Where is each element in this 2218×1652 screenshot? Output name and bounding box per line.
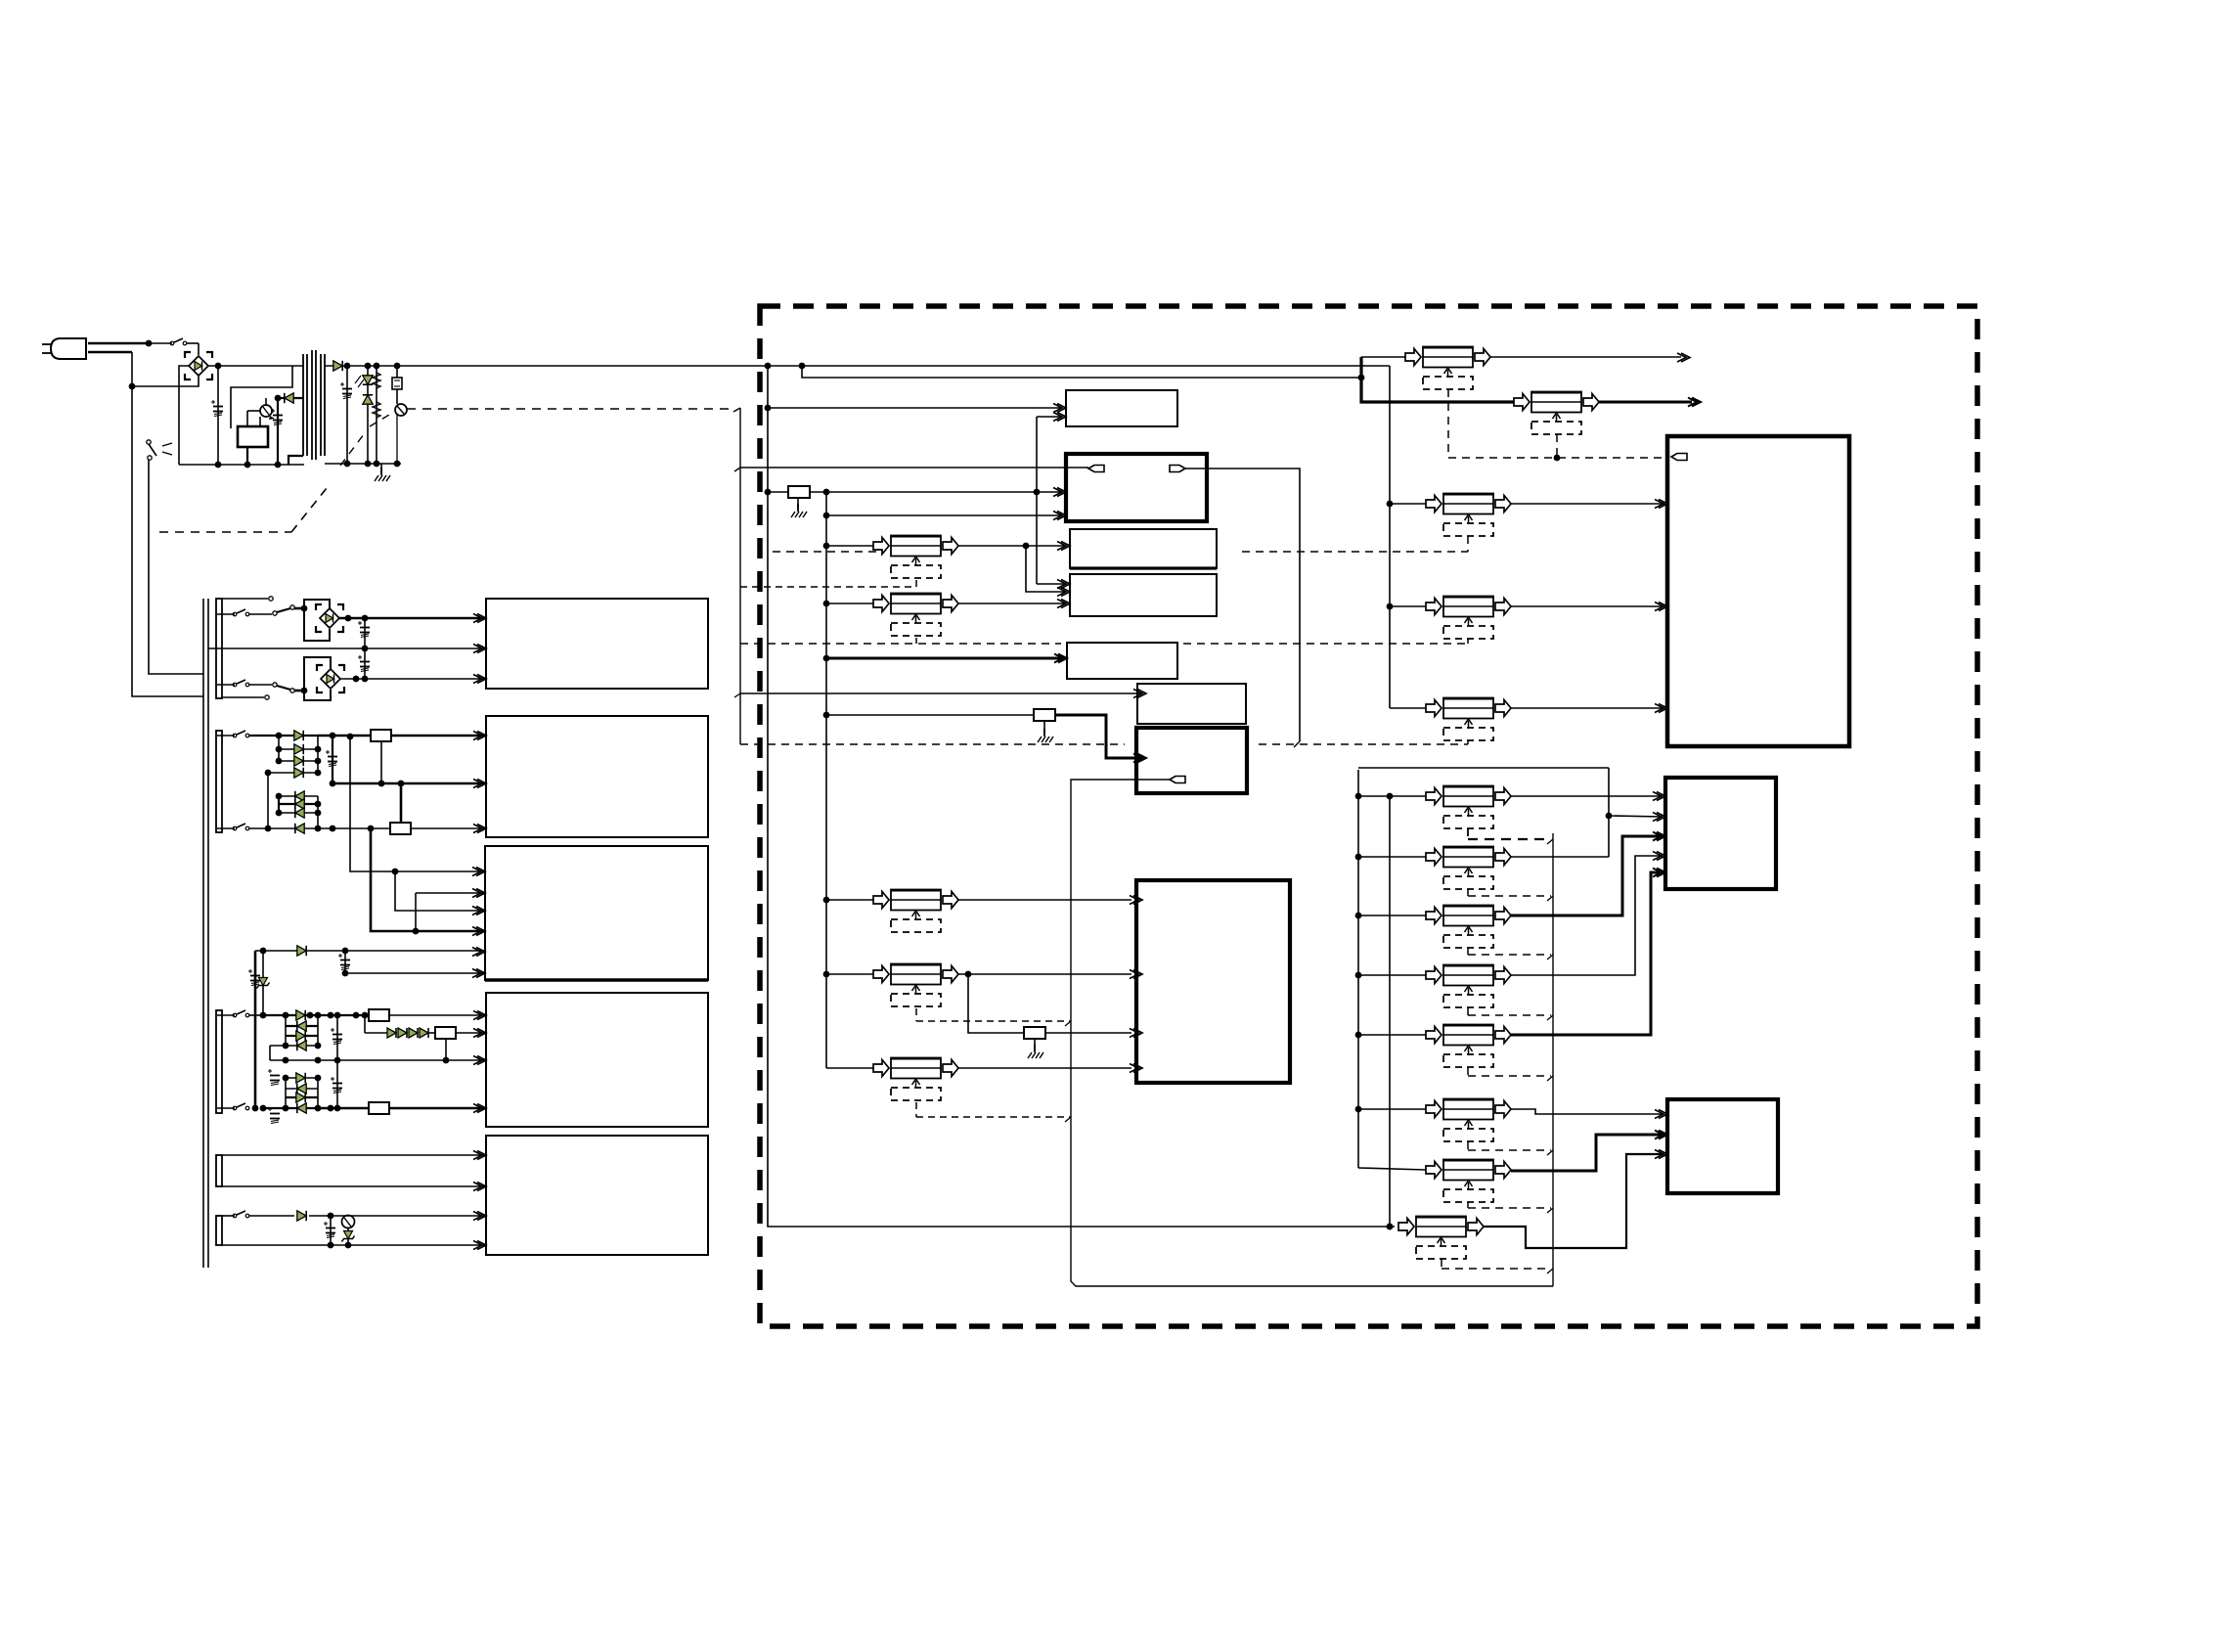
node s2b	[330, 733, 336, 739]
wire cross-l	[740, 467, 1088, 469]
terminal t0	[221, 597, 273, 601]
block B4	[486, 993, 708, 1127]
resistor R7	[318, 1102, 486, 1114]
dashed c1-drop	[1447, 389, 1449, 458]
pin B3	[472, 927, 485, 936]
AC plug P1	[42, 338, 86, 359]
node x1389	[1355, 1106, 1362, 1113]
diode D20	[420, 1028, 428, 1038]
pin BoxK-2	[1130, 970, 1142, 979]
node sec1	[344, 363, 351, 370]
diode D25	[297, 1211, 306, 1221]
pin BoxB-4	[1653, 852, 1665, 861]
wire bus-X1420-low	[1387, 793, 1394, 1230]
node br2o	[345, 615, 352, 622]
wire left-drop-A	[132, 386, 203, 696]
dashed c2-drop	[1556, 434, 1558, 458]
node mains-B	[129, 383, 136, 390]
connector CN3	[873, 536, 958, 579]
pin BoxE-1	[1053, 404, 1066, 413]
node x845	[823, 543, 830, 550]
node rail-b	[275, 462, 282, 469]
wire r1-out	[1511, 795, 1663, 797]
wire r4-up	[400, 783, 403, 824]
wire b1-in2	[208, 647, 486, 649]
wire boxE-in2	[1037, 416, 1061, 418]
node br3o	[353, 676, 360, 683]
wire r7-in	[1358, 1168, 1426, 1170]
node s2a	[276, 733, 283, 739]
zener ZD3	[342, 1228, 355, 1245]
diode D2	[278, 393, 304, 403]
resistor R2	[373, 402, 380, 418]
pin BoxE-2	[1053, 413, 1066, 422]
node sec5	[344, 461, 351, 468]
node x785-b	[765, 489, 772, 496]
flag BoxD-l	[1088, 466, 1104, 472]
node x1389	[1355, 913, 1362, 919]
connector CN11	[1426, 786, 1511, 829]
node x845	[823, 655, 830, 662]
diode D17	[387, 1028, 396, 1038]
node s7a	[260, 1012, 267, 1019]
winding W5	[216, 1216, 222, 1245]
capacitor C11	[268, 1107, 280, 1124]
wire c9-out	[1484, 1154, 1663, 1248]
node c4b	[362, 646, 369, 652]
bus X845	[825, 492, 827, 1068]
diode D15	[286, 1031, 318, 1041]
switch S8	[217, 1103, 249, 1110]
wire return-to-BR1	[132, 376, 199, 386]
diode D16	[270, 1041, 321, 1050]
wire X1060	[1036, 417, 1038, 584]
node x1389	[1355, 793, 1362, 800]
node mains-A	[146, 340, 153, 347]
pin B3	[472, 868, 485, 876]
ground GND2	[791, 498, 807, 517]
resistor R3	[318, 730, 486, 741]
pin BoxC-1	[1655, 1110, 1667, 1119]
wire r5-out	[1511, 872, 1663, 1035]
node s8a	[328, 1105, 334, 1112]
block B5	[486, 1136, 708, 1255]
box BoxA	[1667, 436, 1849, 746]
wire r4-in	[1358, 974, 1426, 976]
diode D19	[409, 1028, 418, 1038]
resistor R1	[373, 366, 380, 464]
ground GND1	[375, 464, 390, 481]
wire r6-down	[443, 1039, 450, 1063]
node s4m2	[353, 1012, 360, 1019]
node s4m	[328, 1012, 334, 1019]
pin B1	[473, 614, 486, 623]
capacitor C8	[248, 969, 260, 986]
node br3o2	[362, 676, 369, 683]
flag BoxJ-ctl	[1170, 777, 1185, 783]
node D2-a	[275, 395, 282, 402]
tick coll-t4	[1547, 1015, 1553, 1020]
wire boxH-in	[826, 657, 1061, 660]
pin BoxC-2	[1655, 1131, 1667, 1139]
wire b5-in2	[222, 1185, 486, 1187]
capacitor C2	[271, 398, 283, 465]
bridge rectifier BR2	[316, 604, 343, 632]
block B2	[486, 716, 708, 837]
box BoxK	[1136, 880, 1290, 1083]
wire boxI-in	[734, 693, 1140, 697]
wire T1-sec-top	[325, 365, 352, 367]
wire s4-br3	[277, 686, 307, 693]
wire boxD-in2	[826, 514, 1061, 516]
diode D23	[286, 1093, 318, 1102]
switch S3	[217, 609, 272, 616]
wire d-col4	[252, 1078, 322, 1111]
capacitor C13	[324, 1216, 335, 1245]
wire b3-in6	[342, 970, 486, 977]
wire b2-mid	[330, 781, 486, 787]
node c9join	[1387, 1224, 1394, 1230]
dashed r3	[1468, 948, 1551, 955]
tick coll-t5	[1547, 1076, 1553, 1081]
pin BoxB-3	[1653, 832, 1665, 841]
diode D26	[297, 946, 306, 956]
dashed c5	[740, 740, 1468, 744]
wire left-drop-B	[149, 460, 203, 674]
connector CN6	[873, 964, 958, 1007]
bridge rectifier BR1	[185, 352, 212, 380]
resistor R8	[768, 486, 1061, 498]
terminal t1	[273, 611, 277, 615]
wire d-col2-l	[278, 796, 280, 813]
pin BoxD-2	[1053, 512, 1066, 520]
bus line L2	[207, 599, 209, 1268]
wire r3-in	[1358, 915, 1426, 916]
tick coll-t6	[1547, 1150, 1553, 1155]
pin BoxF-1	[1057, 542, 1070, 551]
tick coll-t2	[1547, 896, 1553, 901]
capacitor C9	[331, 1012, 342, 1064]
pin B4	[473, 1011, 486, 1020]
pin BoxB-1	[1653, 792, 1665, 801]
dashed c8	[916, 1102, 1071, 1122]
pin BoxC-3	[1655, 1150, 1667, 1159]
node vsplit	[1358, 375, 1365, 381]
wire d-col1-r	[315, 736, 322, 776]
capacitor C4	[358, 618, 370, 648]
connector CN16	[1426, 1099, 1511, 1142]
pin BoxB-2	[1653, 813, 1665, 822]
node rail-a	[244, 462, 251, 469]
wire bus-X785	[768, 366, 1395, 1227]
connector CN1	[1405, 347, 1490, 390]
box BoxH	[1067, 643, 1177, 679]
wire sec3-v1	[347, 734, 486, 875]
transistor Q2 opto	[395, 404, 407, 464]
pin BoxA-3	[1655, 704, 1667, 713]
optocoupler LED D4	[355, 366, 373, 464]
winding W4	[216, 1155, 222, 1186]
pin B2	[473, 732, 486, 740]
block B3	[485, 846, 708, 980]
wire c1-in	[1361, 357, 1405, 378]
capacitor C12	[331, 1060, 342, 1111]
wire boxE-in1	[768, 407, 1061, 409]
connector CN15	[1426, 1025, 1511, 1068]
tick cross-b	[1294, 741, 1300, 747]
node s7b	[283, 1012, 289, 1019]
dashed cF1	[740, 580, 916, 587]
node x845	[823, 513, 830, 519]
node sec8	[394, 461, 401, 468]
node r8a	[823, 489, 830, 496]
pin BoxG-2	[1057, 588, 1070, 597]
pin BoxG-1	[1057, 580, 1070, 589]
wire T1-prim-bot	[288, 456, 303, 465]
connector CN14	[1426, 965, 1511, 1008]
wire Q1-drain	[265, 398, 267, 405]
pin BoxK-1	[1130, 896, 1142, 905]
wire cF1-out	[958, 543, 1065, 550]
wire r6-out	[1511, 1109, 1663, 1114]
node br2o2	[362, 615, 369, 622]
pin B1	[473, 675, 486, 684]
resistor R6	[429, 1027, 486, 1039]
pin B2	[473, 825, 486, 833]
wire c3-out	[1511, 503, 1664, 505]
terminal t0b	[221, 695, 269, 699]
wire r1-in	[1358, 795, 1426, 797]
wire r2-branch	[1609, 816, 1663, 817]
resistor R10	[1024, 1027, 1045, 1039]
box BoxE	[1066, 390, 1177, 426]
wire c8-out	[958, 1067, 1131, 1069]
bridge rectifier BR3	[317, 665, 344, 692]
pin B4	[473, 1056, 486, 1065]
diode D22	[286, 1084, 318, 1094]
wire mains-bottom	[88, 351, 132, 354]
wire cF1-down	[1026, 546, 1065, 592]
wire mains-top	[88, 342, 149, 345]
dashed cF2	[915, 638, 917, 644]
wire c4-out	[1511, 605, 1664, 607]
diode D12	[268, 824, 318, 833]
box BoxF	[1070, 529, 1217, 568]
node x845	[823, 971, 830, 978]
connector CN5	[873, 890, 958, 933]
diode D9	[276, 791, 318, 801]
winding W2	[216, 731, 222, 832]
switch S1	[149, 338, 199, 345]
wire b4-mid	[270, 1057, 486, 1064]
winding W3	[216, 1010, 222, 1113]
connector CN13	[1426, 906, 1511, 949]
wire c2-out	[1599, 398, 1701, 407]
diode D13	[263, 1010, 321, 1020]
pin B5	[473, 1183, 486, 1191]
pin B1	[473, 645, 486, 653]
wire r5-in	[1358, 1034, 1426, 1036]
dashed r4	[1468, 1007, 1551, 1015]
wire BR1-left-loop	[179, 366, 189, 465]
bus line L1	[202, 599, 204, 1268]
connector CN10	[1426, 698, 1511, 741]
pin B3	[472, 948, 485, 957]
node vtop1	[765, 363, 772, 370]
node sec3	[374, 363, 380, 370]
wire c4-in	[1387, 603, 1426, 610]
dashed interlock	[159, 415, 389, 532]
dashed enclosure	[760, 306, 1977, 1326]
pin BoxD-1	[1053, 488, 1066, 497]
dashed c7	[916, 1008, 1071, 1026]
dashed c4	[740, 639, 1468, 644]
box BoxB	[1665, 778, 1776, 889]
wire 4diodes	[362, 1012, 387, 1033]
diode D11	[276, 808, 322, 818]
node r8b	[1034, 489, 1041, 496]
dashed c3	[773, 536, 1468, 552]
pin BoxB-5	[1653, 869, 1665, 877]
pin B5	[473, 1212, 486, 1221]
transistor Q1	[260, 405, 275, 420]
pin BoxA-1	[1655, 500, 1667, 509]
wire br3-loop	[304, 657, 331, 700]
box BoxC	[1667, 1099, 1778, 1193]
terminal t2	[273, 683, 277, 687]
wire r3-out	[1511, 836, 1663, 915]
switch S6	[217, 824, 271, 831]
dashed r2	[1468, 889, 1551, 896]
connector CN2	[1514, 392, 1599, 435]
pin B3	[472, 889, 485, 898]
wire d-col3	[270, 1015, 318, 1060]
pin BoxI-1	[1133, 690, 1146, 698]
wire c8-in	[826, 1067, 873, 1069]
capacitor C6	[326, 736, 337, 783]
wire b5-in3	[309, 1213, 486, 1220]
wire sec3-v2	[395, 871, 486, 911]
dashed r6	[1468, 1141, 1551, 1150]
pin BoxK-3	[1130, 1029, 1142, 1038]
block B1	[486, 599, 708, 689]
wire Q1-gate	[247, 411, 260, 426]
wire sec3-v4	[416, 893, 486, 931]
dashed r5	[1468, 1067, 1551, 1076]
wire aux-loop	[231, 366, 292, 428]
node x845	[823, 897, 830, 904]
pin BoxH-1	[1054, 654, 1067, 663]
capacitor C5	[358, 648, 370, 679]
wire b5-in1	[222, 1154, 486, 1156]
ground GND3	[1038, 721, 1053, 742]
switch S2 interlock	[147, 440, 172, 460]
wire c5-out	[1511, 707, 1664, 709]
diode D24	[263, 1103, 318, 1113]
wire c7-out	[958, 971, 1131, 978]
pin B5	[473, 1241, 486, 1250]
pin B4	[473, 1104, 486, 1113]
ground GND4	[1028, 1039, 1043, 1058]
node x845	[823, 712, 830, 719]
tick coll-t1	[1547, 839, 1553, 844]
box BoxD	[1066, 454, 1207, 521]
switch S4	[217, 680, 272, 687]
wire c1-out	[1490, 353, 1690, 362]
flag BoxA-ctl	[1671, 454, 1687, 461]
switch S7	[217, 1010, 263, 1017]
wire cF1-in	[826, 545, 873, 547]
diode D14	[286, 1021, 318, 1031]
node x1389	[1355, 854, 1362, 861]
connector CN18	[1398, 1217, 1484, 1260]
wire r4-out	[1511, 856, 1663, 975]
node x845	[823, 601, 830, 607]
wire c7-branch	[968, 974, 1024, 1033]
connector CN8	[1426, 494, 1511, 537]
wire primary-rail	[179, 464, 304, 466]
winding W1	[216, 599, 222, 698]
node x1389	[1355, 1032, 1362, 1039]
dashed c9	[1442, 1259, 1551, 1269]
wire opto-out dashed	[407, 408, 735, 410]
capacitor C10	[268, 1069, 280, 1086]
transistor Q3	[342, 1216, 355, 1228]
diode D21	[283, 1073, 322, 1083]
wire c2-in	[1361, 378, 1514, 402]
diode D10	[279, 799, 321, 809]
wire c6-in	[826, 899, 873, 901]
wire VCC-top	[352, 365, 1390, 367]
wire c6-out	[958, 899, 1131, 901]
node sec4	[394, 363, 401, 370]
pin B4	[473, 1029, 486, 1038]
part X1	[392, 366, 402, 404]
connector CN12	[1426, 847, 1511, 890]
connector CN4	[873, 594, 958, 637]
wire r3-down	[380, 741, 382, 783]
box BoxI	[1137, 684, 1246, 724]
wire ctl-X1095	[1071, 780, 1553, 1286]
node x1389	[1355, 972, 1362, 979]
wire BR1-out	[208, 365, 303, 367]
capacitor C7	[338, 951, 350, 973]
wire s1-bridge-top	[277, 605, 307, 612]
wire c7-in	[826, 973, 873, 975]
wire S1-to-BR1	[198, 343, 200, 355]
wire r6-in	[1358, 1108, 1426, 1110]
wire sec3-v3	[368, 826, 486, 935]
capacitor C3	[340, 366, 352, 464]
wire d-col1-l	[276, 736, 283, 764]
node BR1-out	[215, 363, 222, 370]
pin B5	[473, 1151, 486, 1160]
wire c3-in	[1387, 501, 1426, 508]
wire b3-in5	[255, 948, 486, 955]
wire cross-r	[1185, 469, 1300, 741]
diode D18	[398, 1028, 407, 1038]
flag BoxD-r	[1170, 466, 1185, 472]
switch S9	[222, 1211, 294, 1218]
IC PWM box U1	[238, 426, 268, 447]
wire r2-out	[1511, 768, 1612, 857]
pin B3	[472, 907, 485, 915]
connector CN7	[873, 1058, 958, 1101]
box BoxG	[1070, 574, 1217, 616]
pin BoxG-3	[1057, 600, 1070, 608]
wire sec-rail-bot	[325, 463, 401, 465]
wire r2-in	[1358, 856, 1426, 858]
